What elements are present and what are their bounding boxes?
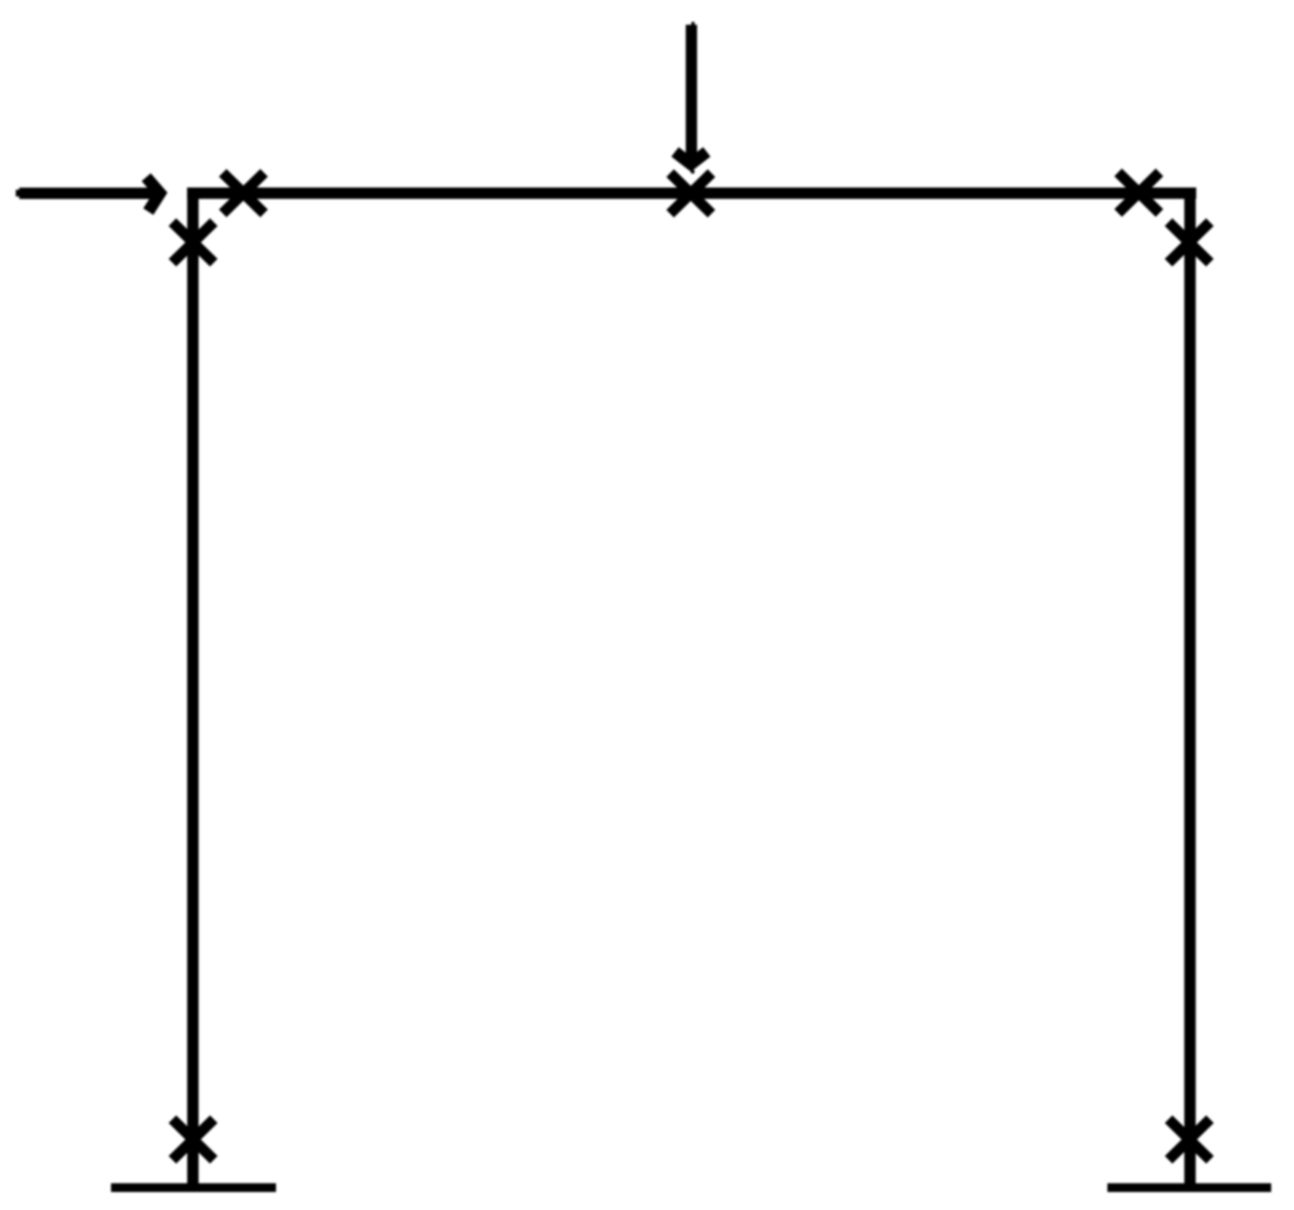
load V (vertical point load arrow at midspan) [675, 22, 707, 174]
hinge X5 (plastic hinge at top of right column) [1169, 222, 1210, 263]
hinge X4 (plastic hinge on beam, right end) [1118, 172, 1159, 213]
hinge X7 (plastic hinge at base of right column) [1169, 1119, 1210, 1160]
column C2 (right column) [1184, 188, 1195, 1192]
load H (horizontal point load arrow at top left) [16, 177, 160, 211]
hinge X6 (plastic hinge at base of left column) [172, 1119, 213, 1160]
hinge X2 (plastic hinge at top of left column) [172, 222, 213, 263]
fixed support S1 (left base ground line) [111, 1183, 276, 1192]
beam B1 (top girder of frame) [187, 187, 1196, 198]
fixed support S2 (right base ground line) [1107, 1183, 1271, 1192]
hinge X3 (plastic hinge at beam midspan under load V) [670, 173, 711, 214]
column C1 (left column) [187, 188, 198, 1192]
hinge X1 (plastic hinge on beam, left end) [223, 173, 264, 214]
